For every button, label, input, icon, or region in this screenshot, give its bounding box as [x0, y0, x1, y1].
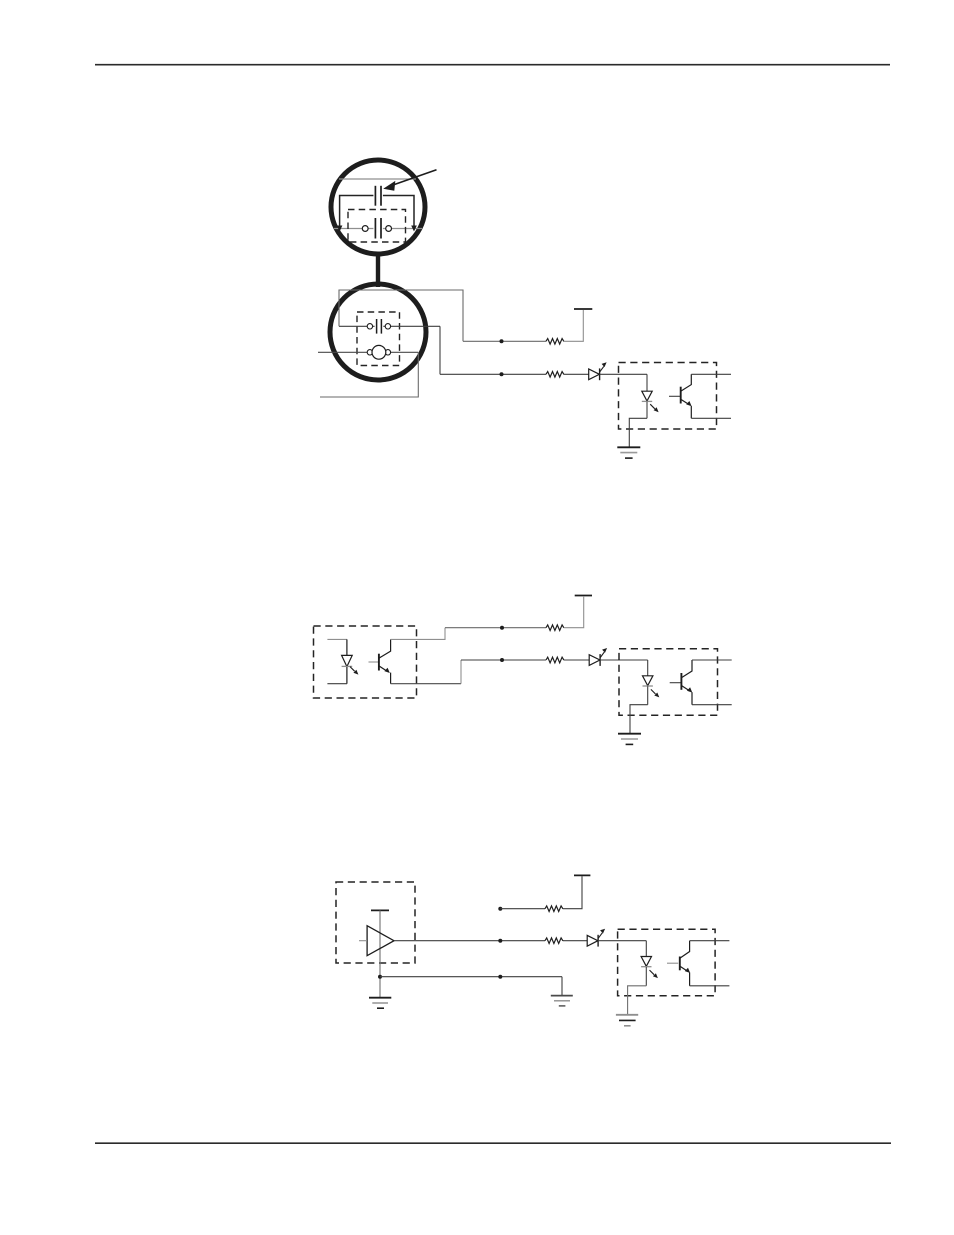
wire pull-up row — [500, 908, 545, 910]
motor terminal circle left — [367, 350, 372, 355]
wire input loop to contact — [339, 290, 463, 341]
driver module dashed package — [336, 882, 415, 963]
buffer U3 — [367, 926, 394, 956]
ground G5 — [616, 1014, 638, 1016]
pointer arrowhead left (down) — [337, 226, 343, 232]
wire chord upper — [339, 178, 416, 180]
resistor R1 — [546, 339, 564, 345]
wire resistor to supply — [563, 876, 582, 908]
wire LED cathode to ground drop — [630, 705, 648, 734]
ground G3 — [369, 997, 391, 999]
wire collector to pull-up row — [391, 628, 445, 640]
contact terminal circle right — [385, 324, 390, 329]
LED D2 arrow — [600, 652, 604, 657]
optocoupler U4 dashed package — [618, 929, 716, 996]
resistor R2 — [546, 372, 564, 378]
node junction dot — [500, 658, 504, 662]
node junction dot — [500, 372, 504, 376]
U2 photo-LED — [647, 660, 649, 676]
PS1 LED emission arrow — [350, 667, 355, 672]
capacitor-style contact S1 upper plates — [373, 185, 383, 207]
node junction dot — [498, 939, 502, 943]
contact terminal circle right — [386, 226, 392, 232]
wire collector stub — [692, 659, 732, 661]
U2 LED emission arrow — [651, 689, 656, 694]
buffer supply terminal bar — [371, 909, 389, 911]
optocoupler U2 dashed package — [619, 649, 718, 716]
PS1 LED — [346, 639, 348, 655]
contact S1 lower plates — [373, 218, 383, 240]
wire motor row — [318, 351, 418, 353]
bottom rule — [95, 1142, 891, 1144]
wire emitter stub — [692, 704, 732, 706]
wire pull-up row — [463, 340, 546, 342]
LED D3 arrow — [598, 933, 602, 938]
wire LED cathode to ground drop — [629, 418, 647, 447]
wire pull-up row — [445, 627, 546, 629]
wire motor return — [320, 352, 418, 397]
LED D1 arrow — [600, 366, 604, 371]
wire resistor to LED — [564, 373, 589, 375]
U4 LED emission arrow — [650, 970, 655, 975]
wire LED cathode to ground drop — [628, 986, 647, 1015]
wire emitter to output row — [391, 683, 461, 685]
optocoupler U1 dashed package — [619, 363, 717, 430]
wire resistor to supply — [564, 597, 584, 628]
PS1 LED cathode stub — [327, 683, 347, 685]
sensor body circle — [330, 284, 426, 380]
wire ground row — [380, 976, 562, 978]
bracket box around contact — [340, 196, 414, 228]
node junction dot — [378, 975, 382, 979]
supply terminal bar — [574, 308, 592, 310]
connector stem between bubbles — [376, 252, 380, 288]
wire LED to optocoupler — [598, 940, 646, 942]
motor M1 — [372, 345, 386, 359]
LED D1 — [589, 369, 600, 380]
U1 LED emission arrow — [650, 404, 655, 409]
wire LED to optocoupler — [600, 659, 648, 661]
wire LED to optocoupler — [600, 373, 647, 375]
motor terminal circle right — [385, 350, 390, 355]
wire emitter stub — [691, 417, 731, 419]
wire ground row drop — [561, 977, 563, 996]
top rule — [95, 64, 890, 66]
resistor R3 — [546, 625, 564, 631]
PS1 LED anode stub — [327, 638, 347, 640]
wire resistor to supply — [564, 310, 584, 341]
contact terminal circle left — [367, 324, 372, 329]
wire chord lower (contact line) — [334, 228, 422, 230]
pointer arrowhead right (down) — [411, 226, 417, 232]
U4 photo-LED — [645, 941, 647, 957]
U4 phototransistor Q4 — [667, 962, 678, 964]
ground G2 — [618, 733, 641, 735]
resistor R4 — [546, 657, 564, 663]
wire LED row — [440, 373, 546, 375]
wire emitter stub — [690, 985, 730, 987]
ground G4 — [551, 995, 573, 997]
callout arrow — [388, 170, 437, 187]
U2 phototransistor Q3 — [670, 682, 681, 684]
contact terminal circle left — [362, 226, 368, 232]
wire collector stub — [690, 940, 730, 942]
wire supply through buffer to ground — [379, 910, 381, 997]
dashed sensor enclosure — [357, 312, 400, 366]
dashed enclosure in bubble — [348, 210, 406, 243]
U1 photo-LED — [646, 374, 648, 391]
node junction dot — [500, 339, 504, 343]
wire collector stub — [691, 373, 731, 375]
ground G1 — [617, 446, 640, 448]
supply terminal bar — [574, 874, 590, 876]
wire LED row — [461, 659, 546, 661]
U1 phototransistor Q1 — [669, 395, 680, 397]
magnifier bubble circle (detail view) — [331, 160, 425, 254]
contact S2 plates — [375, 319, 384, 335]
PS1 phototransistor Q2 — [369, 661, 379, 663]
supply terminal bar — [575, 595, 592, 597]
wire contact row — [339, 325, 440, 327]
node terminal dot pull-up row — [498, 907, 502, 911]
node junction dot — [498, 975, 502, 979]
node junction dot — [500, 626, 504, 630]
resistor R5 — [545, 906, 563, 912]
wire output row — [394, 940, 545, 942]
LED D3 — [587, 935, 598, 946]
resistor R6 — [545, 938, 563, 944]
buffer input stub — [359, 940, 367, 942]
LED D2 — [589, 655, 600, 666]
wire contact to LED row — [439, 326, 441, 374]
sensor PS1 dashed package — [314, 626, 417, 698]
